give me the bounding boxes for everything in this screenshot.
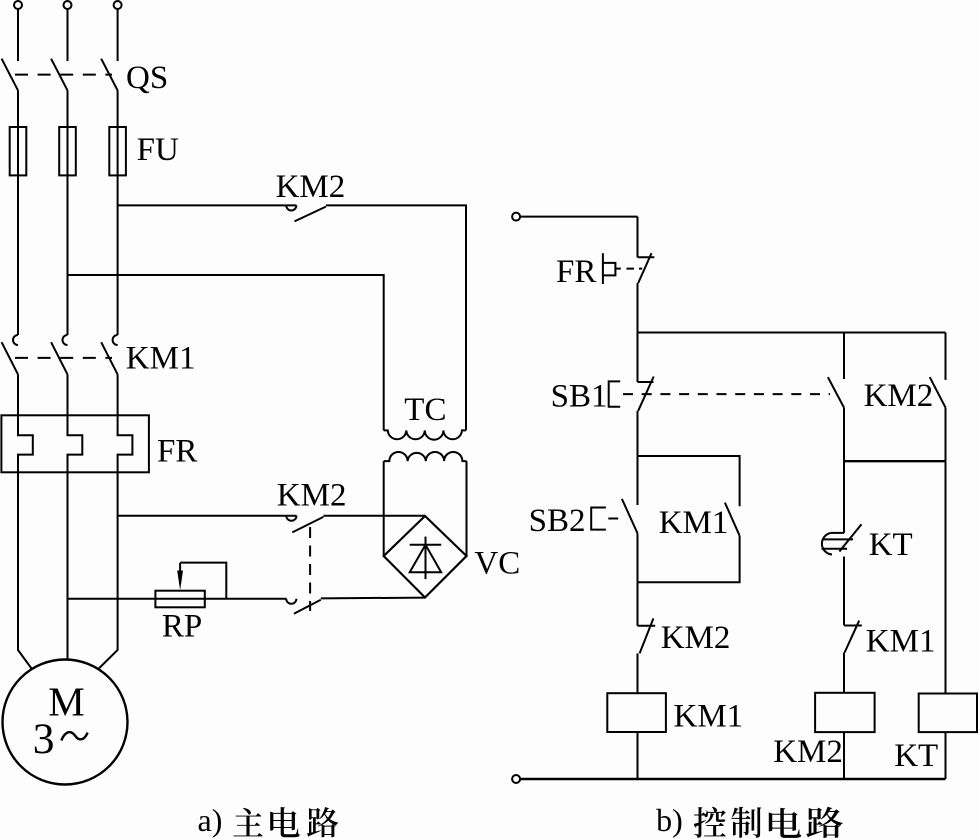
svg-text:FR: FR <box>157 434 197 470</box>
svg-text:TC: TC <box>404 392 446 428</box>
svg-text:SB2: SB2 <box>529 503 586 539</box>
svg-text:VC: VC <box>474 545 520 581</box>
svg-text:KM1: KM1 <box>674 698 744 734</box>
svg-text:SB1: SB1 <box>551 379 608 415</box>
svg-text:QS: QS <box>126 60 168 96</box>
svg-text:3: 3 <box>33 715 55 763</box>
svg-text:KM2: KM2 <box>773 734 843 770</box>
svg-text:KM1: KM1 <box>659 505 729 541</box>
svg-text:KM2: KM2 <box>661 620 731 656</box>
svg-text:KM2: KM2 <box>276 169 346 205</box>
svg-text:KT: KT <box>894 738 938 774</box>
svg-text:KM1: KM1 <box>866 624 936 660</box>
svg-text:FR: FR <box>556 254 596 290</box>
svg-text:KM2: KM2 <box>864 378 934 414</box>
svg-text:KT: KT <box>869 527 913 563</box>
svg-text:KM2: KM2 <box>277 477 347 513</box>
svg-text:b): b) <box>656 802 683 838</box>
svg-text:RP: RP <box>162 608 202 644</box>
svg-text:KM1: KM1 <box>126 341 196 377</box>
svg-text:FU: FU <box>137 132 179 168</box>
svg-text:a): a) <box>198 802 223 838</box>
